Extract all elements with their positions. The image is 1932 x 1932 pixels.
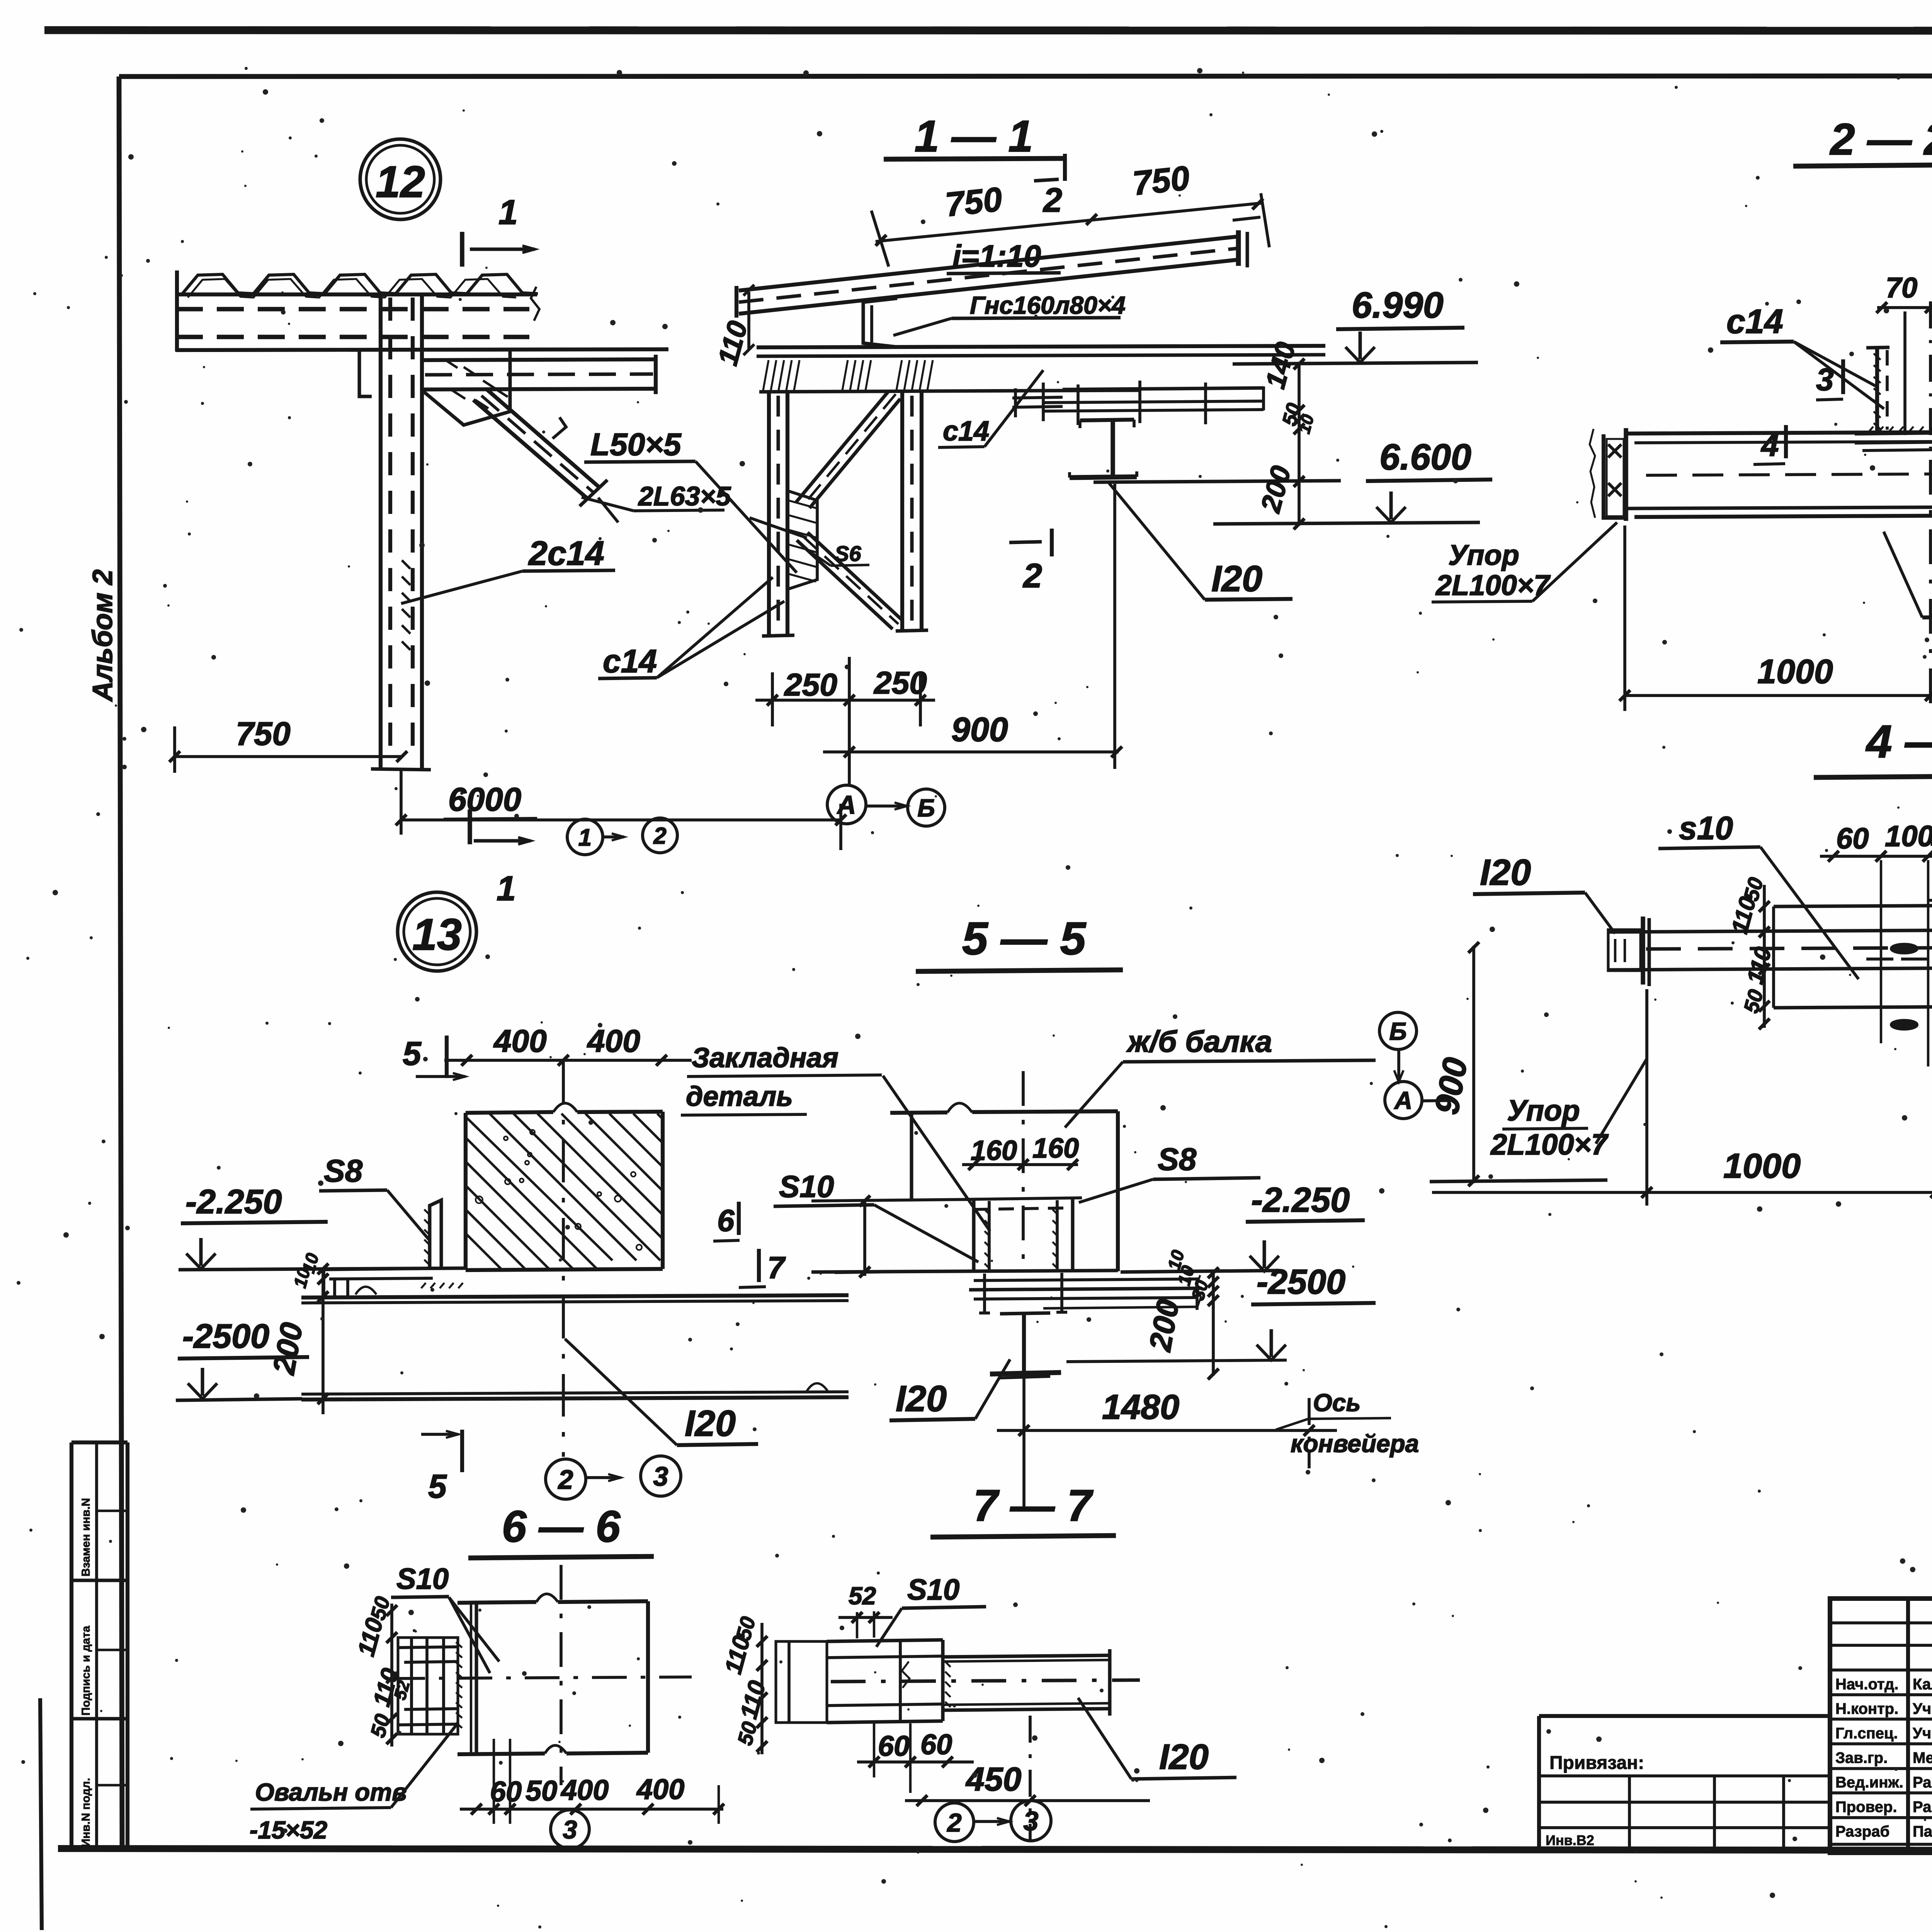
svg-text:750: 750 xyxy=(1131,158,1191,202)
svg-text:-2.250: -2.250 xyxy=(185,1182,282,1221)
concrete block bottom edge node 13 xyxy=(466,1269,663,1270)
embedded angle node 13 xyxy=(430,1200,441,1270)
svg-text:5: 5 xyxy=(428,1468,447,1505)
svg-text:4 — 4: 4 — 4 xyxy=(1866,716,1932,767)
lower brace 1-1 xyxy=(797,540,893,629)
title block rows xyxy=(1830,1621,1932,1624)
svg-text:Б: Б xyxy=(917,794,935,822)
svg-text:160: 160 xyxy=(1032,1133,1079,1164)
upor bracket 2-2 xyxy=(1604,434,1626,518)
svg-text:-2500: -2500 xyxy=(1257,1263,1345,1301)
grid bubbles B A 4-4 xyxy=(1379,1012,1417,1049)
svg-text:6.990: 6.990 xyxy=(1352,285,1444,326)
svg-text:60: 60 xyxy=(920,1728,952,1760)
svg-text:12: 12 xyxy=(376,157,425,207)
svg-text:c14: c14 xyxy=(603,643,657,679)
bolt dashes 4-4 xyxy=(1866,957,1893,961)
diagonal brace node 12 xyxy=(473,400,587,498)
plates 7-7 xyxy=(827,1640,943,1641)
column stub c14 2-2 xyxy=(1875,348,1879,432)
svg-text:Закладная: Закладная xyxy=(692,1043,838,1073)
small angle mark on brace xyxy=(553,417,566,439)
concrete block node 13 xyxy=(466,1112,553,1113)
svg-text:750: 750 xyxy=(944,180,1004,224)
svg-text:2: 2 xyxy=(1043,181,1062,219)
leader zakladnaya xyxy=(883,1076,990,1231)
svg-text:А: А xyxy=(837,791,856,820)
axis line 7-7 xyxy=(1029,1716,1032,1840)
svg-text:3: 3 xyxy=(1816,362,1834,397)
svg-text:250: 250 xyxy=(873,665,927,701)
upper brace 1-1 xyxy=(796,391,889,502)
svg-text:Б: Б xyxy=(1389,1017,1406,1045)
svg-text:s10: s10 xyxy=(1679,810,1733,846)
svg-text:100: 100 xyxy=(1930,819,1932,852)
column 2c14 node 12 xyxy=(379,294,383,769)
section mark 1 (bottom) xyxy=(468,810,472,844)
svg-text:52: 52 xyxy=(849,1582,876,1610)
beam web dashes 2-2 xyxy=(1646,473,1932,475)
svg-text:-2500: -2500 xyxy=(182,1317,269,1355)
svg-text:2: 2 xyxy=(946,1808,961,1837)
svg-text:60: 60 xyxy=(878,1730,910,1762)
svg-text:2L100×7: 2L100×7 xyxy=(1490,1128,1609,1161)
svg-text:Пащенко: Пащенко xyxy=(1913,1823,1932,1840)
svg-text:Межиборская: Межиборская xyxy=(1913,1750,1932,1767)
section mark 1 (top) xyxy=(460,232,464,267)
concrete beam outline 5-5 xyxy=(890,1112,947,1113)
floor beam node 13 xyxy=(301,1295,849,1298)
svg-text:c14: c14 xyxy=(1726,302,1783,340)
privyazan table xyxy=(1537,1716,1541,1851)
roof slab node 12 xyxy=(176,293,537,296)
svg-text:250: 250 xyxy=(784,667,837,702)
grid bubble 3 6-6 xyxy=(551,1810,589,1849)
svg-text:Зав.гр.: Зав.гр. xyxy=(1835,1750,1888,1767)
weld 7-7 xyxy=(945,1662,951,1667)
leader 2L63x5 xyxy=(582,497,634,511)
axis line A 4-4 xyxy=(1430,1180,1607,1182)
svg-text:Учитель: Учитель xyxy=(1913,1701,1932,1718)
svg-text:400: 400 xyxy=(587,1024,640,1059)
flange edges 4-4 xyxy=(1774,904,1932,906)
svg-text:2L100×7: 2L100×7 xyxy=(1435,569,1551,601)
svg-text:А: А xyxy=(1394,1087,1412,1114)
svg-text:13: 13 xyxy=(412,910,462,959)
svg-text:Упор: Упор xyxy=(1507,1094,1580,1127)
sloped roof beam 1-1 xyxy=(739,236,1238,291)
center dashes 6-6 xyxy=(390,1677,692,1679)
svg-text:S8: S8 xyxy=(1158,1142,1197,1177)
I20 beam section 1-1 xyxy=(1080,420,1134,420)
horizontal line -2.250 5-5 xyxy=(811,1199,974,1201)
hatch node 13 xyxy=(466,1117,612,1260)
svg-text:I20: I20 xyxy=(685,1403,736,1444)
I20 under 5-5 xyxy=(1000,1313,1050,1314)
svg-text:S10: S10 xyxy=(396,1563,449,1595)
svg-text:3: 3 xyxy=(563,1815,577,1844)
svg-text:2c14: 2c14 xyxy=(528,534,604,572)
svg-text:Нач.отд.: Нач.отд. xyxy=(1835,1676,1898,1693)
svg-text:6 — 6: 6 — 6 xyxy=(502,1502,621,1551)
svg-text:I20: I20 xyxy=(1211,558,1262,599)
main beam 2-2 xyxy=(1626,431,1932,434)
svg-text:6: 6 xyxy=(717,1203,735,1238)
svg-text:S10: S10 xyxy=(779,1169,834,1204)
svg-text:деталь: деталь xyxy=(686,1081,793,1112)
purlin hung under roof beam 1-1 xyxy=(863,298,897,347)
svg-text:1 — 1: 1 — 1 xyxy=(915,112,1033,161)
grid bubbles A-B 1-1 xyxy=(827,785,866,824)
centerline to bubble 2 node 13 xyxy=(562,1062,565,1457)
embedded box 5-5 xyxy=(972,1199,976,1271)
svg-text:Разраб: Разраб xyxy=(1835,1823,1889,1840)
svg-text:Упор: Упор xyxy=(1448,539,1519,571)
svg-text:1: 1 xyxy=(497,869,516,908)
column weld marks xyxy=(402,560,410,569)
svg-text:Альбом 2: Альбом 2 xyxy=(87,570,118,702)
svg-text:1000: 1000 xyxy=(1757,652,1833,690)
sheet left edge artifact line xyxy=(40,1698,42,1930)
svg-text:5 — 5: 5 — 5 xyxy=(962,913,1087,964)
svg-text:400: 400 xyxy=(493,1024,547,1059)
svg-text:900: 900 xyxy=(951,710,1008,748)
bearing detail left node 13 xyxy=(324,1268,466,1270)
svg-text:1: 1 xyxy=(578,824,592,851)
grid bubbles 2-3 7-7 xyxy=(935,1803,974,1842)
svg-text:750: 750 xyxy=(236,716,291,752)
frame top border xyxy=(119,76,1932,77)
oval holes 4-4 xyxy=(1891,944,1917,953)
anchor bolts 2-2 xyxy=(1903,311,1906,435)
svg-text:Учитель: Учитель xyxy=(1913,1725,1932,1742)
svg-text:5: 5 xyxy=(403,1035,422,1072)
leader GnS xyxy=(893,318,951,335)
grid bubbles 1-2 node 12 xyxy=(567,819,603,855)
svg-text:Взамен инв.N: Взамен инв.N xyxy=(80,1498,92,1577)
leaders c14 xyxy=(657,577,773,678)
svg-text:1480: 1480 xyxy=(1102,1388,1179,1427)
beam left end plate 2-2 xyxy=(1624,428,1628,521)
svg-text:S6: S6 xyxy=(835,541,861,566)
beam to the right node 12 xyxy=(422,359,656,360)
frame left border xyxy=(119,77,122,1849)
svg-text:3: 3 xyxy=(1024,1806,1039,1836)
svg-text:2 — 2: 2 — 2 xyxy=(1830,115,1932,164)
embedded plate 6-6 xyxy=(398,1638,458,1734)
svg-text:100: 100 xyxy=(1885,820,1932,853)
svg-text:I20: I20 xyxy=(896,1378,947,1419)
svg-text:2L63×5: 2L63×5 xyxy=(638,481,731,511)
title block outline xyxy=(1830,1599,1932,1853)
level 6.600 line 1-1 xyxy=(1094,481,1341,482)
svg-text:Гнc160л80×4: Гнc160л80×4 xyxy=(970,291,1126,319)
svg-text:конвейера: конвейера xyxy=(1291,1430,1419,1458)
svg-text:ж/б балка: ж/б балка xyxy=(1126,1024,1272,1058)
svg-text:Ось: Ось xyxy=(1313,1389,1361,1417)
svg-text:6000: 6000 xyxy=(448,781,521,818)
bolts 6-6 xyxy=(404,1662,458,1662)
svg-text:Провер.: Провер. xyxy=(1835,1799,1897,1816)
section mark 2 bottom 1-1 xyxy=(1050,529,1054,556)
svg-text:7 — 7: 7 — 7 xyxy=(973,1481,1094,1531)
leader L50x5 xyxy=(696,461,797,573)
svg-text:6.600: 6.600 xyxy=(1379,437,1471,478)
corrugated roof deck node 12 xyxy=(182,274,538,294)
node 12 bubble xyxy=(360,139,440,219)
svg-text:Н.контр.: Н.контр. xyxy=(1835,1701,1898,1718)
svg-text:I20: I20 xyxy=(1480,852,1531,893)
svg-text:1000: 1000 xyxy=(1723,1147,1801,1185)
left block 7-7 xyxy=(776,1641,827,1723)
slab plan 6-6 xyxy=(457,1602,536,1603)
beam break left 2-2 xyxy=(1590,429,1595,518)
sheet outer top edge line xyxy=(44,30,1932,31)
svg-text:400: 400 xyxy=(560,1774,609,1806)
beam plan 4-4 xyxy=(1608,929,1932,932)
svg-text:1: 1 xyxy=(498,193,518,232)
svg-text:2: 2 xyxy=(1022,556,1042,595)
left dim 5-5 xyxy=(863,1199,866,1276)
svg-text:50: 50 xyxy=(526,1775,557,1807)
leader 2c14 xyxy=(401,571,522,604)
bolt line extensions 4-4 xyxy=(1880,860,1882,1043)
weld hatch on chord at columns 1-1 xyxy=(763,360,769,390)
roof beam end plate 1-1 xyxy=(1236,230,1241,266)
small angle on slab left of column xyxy=(350,350,372,396)
svg-text:Рапопорт: Рапопорт xyxy=(1913,1799,1932,1816)
svg-text:Калитульский: Калитульский xyxy=(1913,1676,1932,1693)
base plates 2-2 xyxy=(1855,432,1932,434)
chord bottom line 1-1 xyxy=(759,390,1140,392)
svg-text:7: 7 xyxy=(767,1250,786,1285)
gusset plate on column A 1-1 xyxy=(787,491,817,589)
grid bubbles 2-3 node 13 xyxy=(546,1459,586,1499)
pebbles in concrete xyxy=(520,1179,524,1182)
svg-text:-2.250: -2.250 xyxy=(1251,1181,1350,1219)
margin specks left xyxy=(17,292,36,1764)
node 13 bubble xyxy=(398,892,476,971)
plate stack 5-5 xyxy=(974,1279,1197,1281)
svg-text:L50×5: L50×5 xyxy=(590,427,682,462)
bearing plates under chord 1-1 xyxy=(1063,388,1264,389)
svg-text:Привязан:: Привязан: xyxy=(1549,1753,1644,1773)
left stamp table xyxy=(70,1442,73,1849)
frame bottom border xyxy=(58,1849,1932,1851)
svg-text:Вед.инж.: Вед.инж. xyxy=(1835,1774,1903,1791)
svg-text:400: 400 xyxy=(636,1773,684,1805)
beam 7-7 xyxy=(943,1655,1110,1657)
svg-text:i=1:10: i=1:10 xyxy=(952,239,1041,273)
top chord lines 1-1 xyxy=(757,346,1325,347)
svg-text:I20: I20 xyxy=(1159,1737,1209,1777)
svg-text:c14: c14 xyxy=(943,416,989,447)
svg-text:Рапопорт: Рапопорт xyxy=(1913,1774,1932,1791)
svg-text:2: 2 xyxy=(653,823,666,849)
bolts 5-5 xyxy=(983,1274,986,1314)
svg-text:Овальн отв: Овальн отв xyxy=(255,1778,407,1806)
left end upor 4-4 xyxy=(1608,930,1641,971)
svg-text:70: 70 xyxy=(1886,272,1917,304)
svg-text:Подпись и дата: Подпись и дата xyxy=(80,1626,92,1716)
corbel gusset node 12 xyxy=(422,350,510,425)
left column A 1-1 xyxy=(767,392,771,636)
svg-text:Гл.спец.: Гл.спец. xyxy=(1835,1725,1898,1742)
svg-text:450: 450 xyxy=(965,1761,1022,1798)
right column B 1-1 xyxy=(900,392,904,631)
svg-text:2: 2 xyxy=(558,1464,573,1495)
svg-text:60: 60 xyxy=(1836,822,1869,855)
svg-text:Инв.N подл.: Инв.N подл. xyxy=(80,1778,92,1847)
svg-text:S8: S8 xyxy=(324,1153,363,1189)
axis konveyera 5-5 xyxy=(1308,1398,1311,1468)
svg-text:Инв.В2: Инв.В2 xyxy=(1546,1832,1594,1848)
section mark 5 bottom node 13 xyxy=(460,1430,464,1472)
svg-text:S10: S10 xyxy=(907,1573,959,1606)
svg-text:-15×52: -15×52 xyxy=(250,1816,327,1844)
svg-text:3: 3 xyxy=(653,1461,668,1492)
